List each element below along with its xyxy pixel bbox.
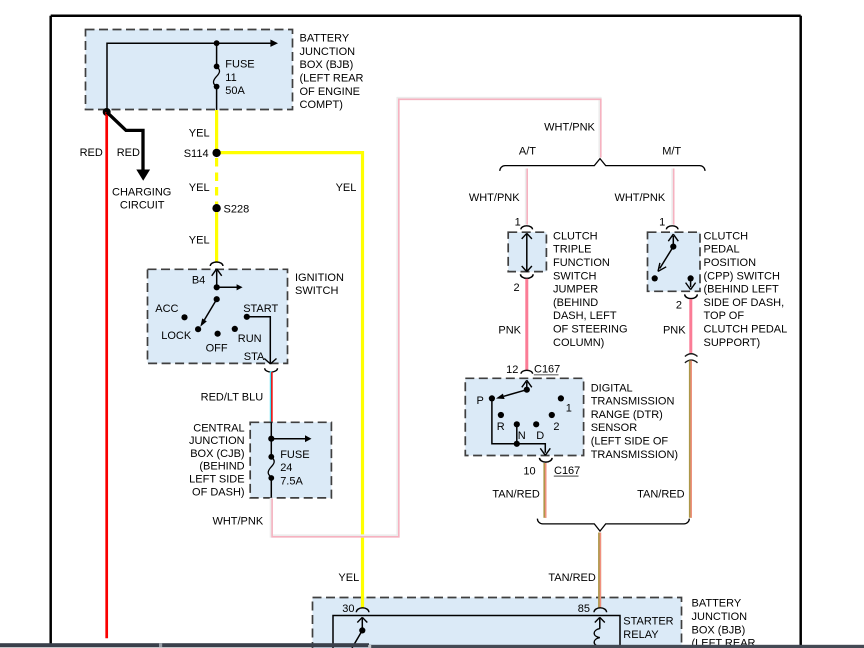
wire PNK (jumper to DTR)	[525, 279, 528, 371]
ignition wiper node	[214, 296, 220, 302]
window edge bar	[0, 643, 864, 648]
svg-text:FUSE: FUSE	[280, 449, 309, 461]
wire TAN/RED (DTR to merge brace)	[543, 463, 547, 518]
digital transmission range DTR sensor box	[465, 378, 583, 455]
svg-text:RED/LT BLU: RED/LT BLU	[201, 391, 264, 403]
svg-text:(BEHIND: (BEHIND	[553, 297, 598, 309]
svg-text:CLUTCH PEDAL: CLUTCH PEDAL	[704, 324, 788, 336]
svg-text:WHT/PNK: WHT/PNK	[614, 192, 665, 204]
DTR wiper node	[524, 387, 530, 393]
svg-text:CLUTCH: CLUTCH	[704, 230, 749, 242]
connector bump: relay pin 85	[594, 608, 607, 613]
svg-text:ACC: ACC	[155, 303, 178, 315]
svg-text:CLUTCH: CLUTCH	[553, 230, 598, 242]
CJB bus arrow (right)	[271, 435, 311, 442]
splice S114	[212, 149, 220, 157]
svg-text:JUMPER: JUMPER	[553, 284, 598, 296]
svg-text:M/T: M/T	[662, 146, 681, 158]
clutch pedal position CPP switch box	[648, 232, 701, 291]
brace: A/T - M/T split	[500, 159, 705, 171]
node on ignition feed	[214, 284, 220, 290]
wire START to STA output with arrow	[247, 317, 277, 364]
CPP output arrow (down)	[686, 278, 696, 289]
arrowhead on BJB bus	[270, 40, 278, 47]
svg-text:TRANSMISSION): TRANSMISSION)	[591, 449, 678, 461]
wire WHT/PNK (M/T branch)	[671, 169, 675, 225]
svg-text:(LEFT REAR: (LEFT REAR	[300, 73, 364, 85]
contact ACC	[181, 314, 187, 320]
svg-text:PEDAL: PEDAL	[704, 244, 740, 256]
svg-text:COLUMN): COLUMN)	[553, 337, 604, 349]
wire break symbol	[685, 354, 698, 363]
svg-text:BOX (BJB): BOX (BJB)	[692, 624, 746, 636]
svg-text:RANGE (DTR): RANGE (DTR)	[591, 409, 663, 421]
fuse F24	[268, 454, 274, 498]
wire YEL (entering relay pin 30)	[361, 597, 364, 609]
wire: CJB internal bus	[270, 422, 272, 457]
BJB name label	[300, 33, 364, 112]
svg-text:D: D	[536, 430, 544, 442]
svg-text:IGNITION: IGNITION	[295, 272, 344, 284]
connector bump: relay pin 30	[356, 608, 369, 613]
connector bump: jumper pin 2	[521, 274, 534, 278]
BJB name label (bottom)	[692, 598, 756, 648]
svg-text:JUNCTION: JUNCTION	[692, 611, 748, 623]
contact LOCK	[195, 326, 201, 332]
svg-text:FUNCTION: FUNCTION	[553, 257, 610, 269]
svg-text:2: 2	[513, 282, 519, 294]
wire RED (left vertical)	[105, 112, 108, 638]
jumper name label	[553, 230, 628, 348]
svg-text:BATTERY: BATTERY	[692, 598, 742, 610]
wire YEL (BJB to S114)	[215, 110, 218, 153]
connector bump: CPP pin 1	[666, 226, 678, 230]
svg-text:STA: STA	[244, 351, 265, 363]
svg-text:OFF: OFF	[206, 343, 228, 355]
svg-text:PNK: PNK	[498, 324, 521, 336]
svg-text:LOCK: LOCK	[161, 330, 192, 342]
jumper internal double arrow	[522, 233, 532, 271]
svg-text:TAN/RED: TAN/RED	[548, 572, 596, 584]
svg-text:POSITION: POSITION	[704, 257, 757, 269]
wire: P contact to DTR output with arrow	[492, 398, 550, 455]
svg-text:WHT/PNK: WHT/PNK	[469, 192, 520, 204]
svg-text:12: 12	[506, 364, 518, 376]
svg-text:YEL: YEL	[338, 572, 359, 584]
wire N contact to output path	[516, 424, 518, 444]
wire WHT/PNK (A/T branch)	[525, 169, 529, 225]
svg-text:R: R	[497, 421, 505, 433]
svg-text:CIRCUIT: CIRCUIT	[120, 200, 165, 212]
wire to charging circuit (thick black arrow)	[107, 112, 150, 181]
svg-text:JUNCTION: JUNCTION	[300, 46, 356, 58]
CPP feed arrow (up)	[668, 234, 678, 246]
svg-text:2: 2	[676, 299, 682, 311]
svg-text:(BEHIND LEFT: (BEHIND LEFT	[704, 284, 779, 296]
svg-text:TRANSMISSION: TRANSMISSION	[591, 396, 675, 408]
node on DTR output path	[514, 441, 520, 447]
svg-text:A/T: A/T	[519, 146, 536, 158]
connector bump: ignition switch input	[210, 262, 223, 266]
central junction box CJB	[250, 422, 331, 498]
svg-text:30: 30	[342, 603, 354, 615]
wire YEL branch (S114 to starter relay pin 30)	[217, 153, 363, 606]
svg-text:OF DASH): OF DASH)	[192, 486, 245, 498]
svg-text:YEL: YEL	[189, 127, 210, 139]
svg-text:RUN: RUN	[238, 333, 262, 345]
connector bump: DTR pin 10	[540, 458, 553, 462]
svg-text:SWITCH: SWITCH	[295, 285, 338, 297]
DTR wiper arrow toward P	[496, 390, 527, 399]
svg-text:JUNCTION: JUNCTION	[189, 435, 245, 447]
svg-text:S114: S114	[184, 148, 209, 160]
svg-text:START: START	[243, 303, 278, 315]
contact P	[489, 395, 495, 401]
svg-text:PNK: PNK	[663, 324, 686, 336]
svg-text:RELAY: RELAY	[623, 629, 659, 641]
svg-text:STARTER: STARTER	[623, 616, 673, 628]
svg-text:C167: C167	[554, 465, 580, 477]
contact RUN	[232, 326, 238, 332]
ignition switch box	[148, 269, 288, 363]
wire RED/LT BLU (ignition to CJB)	[270, 371, 273, 422]
CJB name label	[189, 422, 245, 498]
CPP name label	[704, 230, 788, 348]
contact OFF	[215, 331, 221, 337]
wire PNK (CPP to break)	[689, 299, 692, 353]
brace: TAN/RED merge	[537, 519, 689, 532]
wire TAN/RED (entering relay pin 85)	[598, 597, 602, 609]
svg-text:1: 1	[566, 402, 572, 414]
ignition feed arrow (up)	[212, 269, 222, 288]
CPP output contact	[688, 275, 694, 281]
label CHARGING CIRCUIT	[112, 186, 171, 211]
svg-text:TAN/RED: TAN/RED	[492, 488, 540, 500]
svg-text:C167: C167	[534, 364, 560, 376]
contact D	[533, 421, 539, 427]
svg-text:(LEFT SIDE OF: (LEFT SIDE OF	[591, 436, 669, 448]
svg-text:TOP OF: TOP OF	[704, 310, 745, 322]
contact 2	[549, 412, 555, 418]
node: bus to fuse 11	[214, 40, 220, 46]
battery junction box BJB (top)	[86, 30, 293, 110]
splice S228	[212, 204, 220, 212]
svg-text:B4: B4	[192, 274, 205, 286]
svg-text:7.5A: 7.5A	[280, 475, 303, 487]
svg-text:P: P	[476, 395, 483, 407]
svg-text:YEL: YEL	[189, 234, 210, 246]
connector bump: ignition output	[265, 368, 278, 372]
relay switch contact arrow (pin 30)	[352, 617, 367, 648]
svg-text:(CPP) SWITCH: (CPP) SWITCH	[704, 270, 780, 282]
svg-text:TAN/RED: TAN/RED	[637, 488, 685, 500]
svg-text:1: 1	[659, 217, 665, 229]
svg-text:DIGITAL: DIGITAL	[591, 382, 633, 394]
svg-text:SIDE OF DASH,: SIDE OF DASH,	[704, 297, 785, 309]
CPP fixed contact	[652, 275, 658, 281]
starter relay inner box	[333, 616, 620, 648]
contact R	[498, 412, 504, 418]
connector bump: CPP pin 2	[685, 294, 698, 298]
contact START	[244, 314, 250, 320]
svg-text:85: 85	[578, 603, 590, 615]
relay coil with arrow (pin 85)	[594, 617, 605, 646]
svg-text:CHARGING: CHARGING	[112, 186, 171, 198]
svg-text:LEFT SIDE: LEFT SIDE	[189, 474, 244, 486]
svg-text:CENTRAL: CENTRAL	[193, 422, 244, 434]
DTR name label	[591, 382, 678, 461]
wire TAN/RED (merge to starter relay pin 85)	[598, 533, 602, 608]
svg-text:RED: RED	[117, 147, 140, 159]
contact 1	[558, 395, 564, 401]
label IGNITION SWITCH	[295, 272, 344, 297]
ignition wiper arrow toward LOCK	[200, 299, 216, 327]
node: BJB output splice	[103, 108, 111, 116]
svg-text:OF ENGINE: OF ENGINE	[300, 86, 361, 98]
svg-text:RED: RED	[80, 147, 103, 159]
svg-text:BATTERY: BATTERY	[300, 33, 350, 45]
svg-text:WHT/PNK: WHT/PNK	[544, 122, 595, 134]
svg-text:11: 11	[225, 72, 236, 84]
svg-text:1: 1	[515, 217, 521, 229]
svg-text:FUSE: FUSE	[225, 59, 254, 71]
clutch triple function switch jumper box	[508, 232, 546, 271]
svg-text:YEL: YEL	[189, 182, 210, 194]
svg-text:OF STEERING: OF STEERING	[553, 324, 628, 336]
svg-text:BOX (BJB): BOX (BJB)	[300, 59, 354, 71]
svg-text:YEL: YEL	[336, 182, 357, 194]
DTR feed arrow (up)	[522, 380, 532, 389]
wire: BJB internal bus	[107, 43, 271, 111]
CPP wiper node	[670, 244, 676, 250]
svg-text:COMPT): COMPT)	[300, 99, 343, 111]
fuse F24 value label	[280, 449, 309, 487]
svg-text:BOX (CJB): BOX (CJB)	[190, 448, 244, 460]
svg-text:SENSOR: SENSOR	[591, 422, 638, 434]
svg-text:10: 10	[523, 466, 535, 478]
svg-text:50A: 50A	[225, 85, 245, 97]
starter relay battery junction box (outer, bottom)	[313, 598, 682, 648]
svg-text:(BEHIND: (BEHIND	[199, 461, 244, 473]
label STARTER RELAY	[623, 616, 673, 641]
svg-text:WHT/PNK: WHT/PNK	[212, 516, 263, 528]
svg-text:S228: S228	[224, 203, 250, 215]
connector bump: jumper pin 1	[521, 226, 533, 230]
svg-text:DASH, LEFT: DASH, LEFT	[553, 310, 617, 322]
wire TAN/RED (break to merge brace)	[689, 361, 693, 518]
node: CJB bus	[268, 436, 274, 442]
connector bump: DTR pin 12	[521, 370, 533, 373]
fuse F11 value label	[225, 59, 254, 98]
CPP wiper arrow (open switch)	[658, 247, 673, 272]
svg-text:SWITCH: SWITCH	[553, 270, 596, 282]
svg-text:N: N	[518, 430, 526, 442]
svg-text:24: 24	[280, 462, 292, 474]
wire YEL (S228 to ignition switch)	[215, 212, 218, 263]
wire WHT/PNK (CJB to A/T-M/T split)	[271, 99, 601, 537]
svg-text:SUPPORT): SUPPORT)	[704, 337, 761, 349]
fuse F11	[213, 43, 219, 110]
svg-text:TRIPLE: TRIPLE	[553, 244, 592, 256]
wire YEL dashed (S114 to S228)	[215, 158, 218, 204]
svg-text:2: 2	[553, 421, 559, 433]
contact N	[514, 421, 520, 427]
ignition branch arrow (right)	[217, 284, 243, 290]
